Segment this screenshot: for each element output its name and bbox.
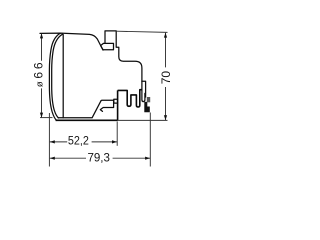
svg-text:70: 70: [159, 71, 173, 85]
svg-text:52,2: 52,2: [68, 133, 89, 147]
svg-text:79,3: 79,3: [87, 151, 110, 165]
svg-text:ø66: ø66: [32, 60, 46, 88]
